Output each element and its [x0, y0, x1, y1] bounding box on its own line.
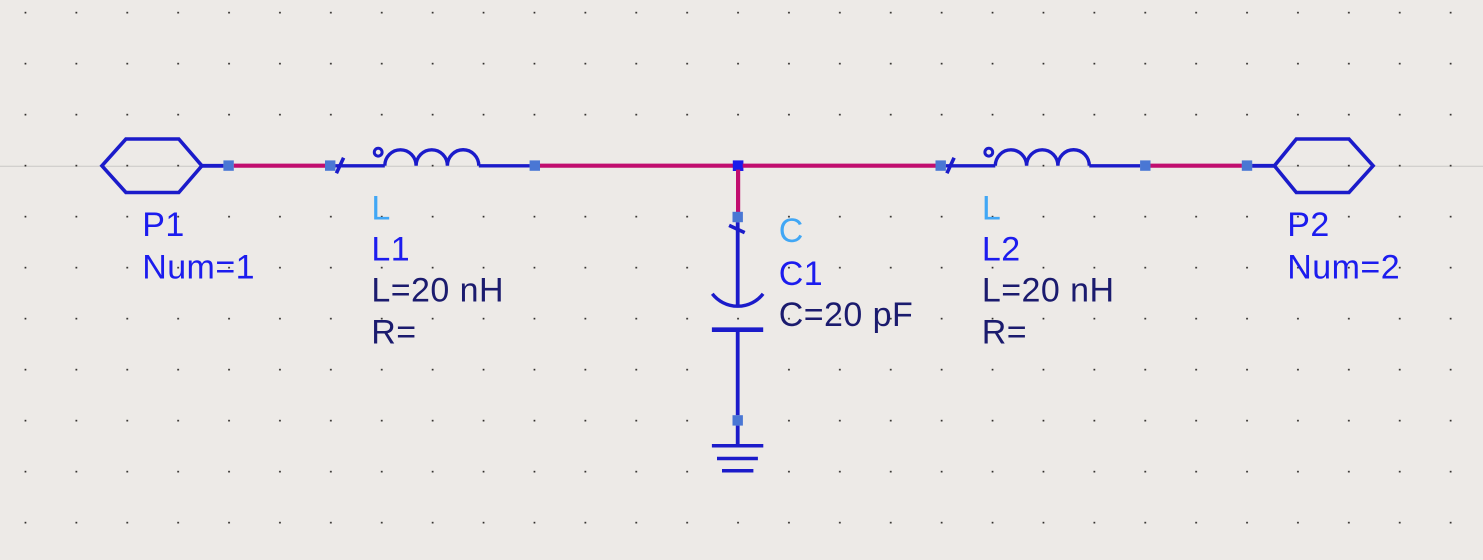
svg-text:Num=1: Num=1 [142, 248, 255, 286]
svg-text:C1: C1 [779, 255, 823, 293]
junction node [733, 160, 744, 171]
svg-text:L: L [371, 190, 390, 228]
svg-text:L1: L1 [371, 230, 410, 268]
svg-text:L=20 nH: L=20 nH [982, 272, 1115, 310]
svg-text:L: L [982, 190, 1001, 228]
wire junction to L2 [743, 164, 936, 168]
ground [712, 426, 763, 471]
svg-text:P2: P2 [1287, 206, 1330, 244]
svg-text:R=: R= [371, 314, 416, 352]
pin node L2 pin2 [1140, 160, 1150, 170]
svg-text:C: C [779, 212, 804, 250]
wire L1 to junction [540, 164, 734, 168]
svg-text:L2: L2 [982, 230, 1021, 268]
svg-text:Num=2: Num=2 [1287, 248, 1400, 286]
pin node C1 pin2 [733, 415, 743, 425]
pin node P2 [1242, 160, 1252, 170]
svg-text:C=20 pF: C=20 pF [779, 296, 914, 334]
pin node L1 pin2 [530, 160, 540, 170]
inductor L2 [946, 148, 1140, 173]
pin node P1 [223, 160, 233, 170]
wire junction to C1 [736, 170, 740, 213]
wire L2 to P2 [1151, 164, 1242, 168]
port P1 [102, 139, 223, 193]
inductor L1 [335, 148, 529, 173]
pin node L1 pin1 [325, 160, 335, 170]
port P2 [1252, 139, 1373, 193]
svg-text:R=: R= [982, 314, 1027, 352]
wire P1 to L1 [234, 164, 325, 168]
pin node C1 pin1 [733, 212, 743, 222]
pin node L2 pin1 [936, 160, 946, 170]
svg-text:P1: P1 [142, 206, 185, 244]
capacitor C1 [712, 222, 763, 415]
svg-text:L=20 nH: L=20 nH [371, 272, 504, 310]
